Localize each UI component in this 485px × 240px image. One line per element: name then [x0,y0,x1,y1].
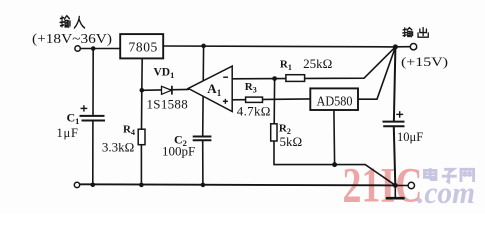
svg-text:1S1588: 1S1588 [147,97,189,112]
svg-text:3.3kΩ: 3.3kΩ [102,139,134,154]
svg-text:10μF: 10μF [397,130,423,144]
svg-text:(+15V): (+15V) [401,55,448,69]
svg-text:5kΩ: 5kΩ [280,134,303,149]
svg-text:.com: .com [417,175,475,210]
svg-text:(+18V~36V): (+18V~36V) [32,31,112,46]
svg-text:AD580: AD580 [317,95,353,110]
svg-text:25kΩ: 25kΩ [303,56,332,71]
svg-text:7805: 7805 [129,40,158,55]
svg-text:4.7kΩ: 4.7kΩ [237,104,271,119]
svg-text:1μF: 1μF [57,126,79,140]
